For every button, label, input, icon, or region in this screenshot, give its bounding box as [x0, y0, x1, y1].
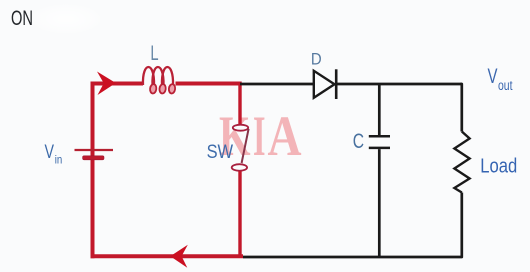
svg-text:SW: SW — [207, 142, 234, 163]
capacitor C: bottom plate — [369, 147, 390, 150]
diode D: cathode bar — [335, 69, 338, 99]
battery Vin: long plate — [75, 149, 114, 151]
svg-text:V: V — [488, 65, 498, 88]
wire: top horizontal left of inductor (red) — [91, 82, 144, 86]
svg-text:Load: Load — [480, 154, 517, 177]
svg-text:C: C — [353, 130, 364, 153]
svg-text:I: I — [253, 105, 266, 168]
svg-text:out: out — [498, 78, 513, 93]
wire: left vertical (red, Vin branch) — [91, 82, 95, 259]
wire: bottom horizontal (red) — [91, 254, 244, 258]
capacitor C: top plate — [369, 135, 390, 138]
battery Vin: short thick plate — [83, 156, 104, 160]
wire: top horizontal black (switch junction to diode) — [240, 83, 314, 86]
wire: capacitor lower lead (black) — [378, 149, 381, 257]
wire: top horizontal right of inductor (red) — [176, 82, 242, 86]
switch SW: blade — [242, 129, 249, 163]
switch SW: top contact — [233, 125, 248, 131]
current arrow (top, pointing right) — [97, 72, 116, 96]
svg-text:A: A — [268, 105, 302, 168]
current arrow (bottom, pointing left) — [170, 245, 188, 268]
resistor Load: zigzag — [454, 132, 469, 193]
wire: top horizontal black (diode to right corner) — [336, 83, 462, 86]
wire: right vertical upper (black) — [460, 84, 461, 132]
switch SW: bottom contact — [232, 164, 247, 171]
wire: switch upper lead (red) — [238, 82, 241, 127]
wire: right vertical lower + bottom black — [243, 193, 462, 258]
svg-text:ON: ON — [11, 7, 33, 30]
svg-text:D: D — [311, 50, 322, 68]
svg-text:V: V — [45, 141, 55, 163]
diode D: triangle — [314, 71, 335, 98]
wire: switch lower lead (red) — [238, 171, 241, 258]
svg-text:L: L — [150, 42, 158, 65]
wire: capacitor upper lead (black) — [378, 84, 381, 135]
inductor L coil — [143, 67, 173, 85]
watermark KIA — [219, 105, 302, 168]
svg-text:in: in — [55, 153, 63, 167]
